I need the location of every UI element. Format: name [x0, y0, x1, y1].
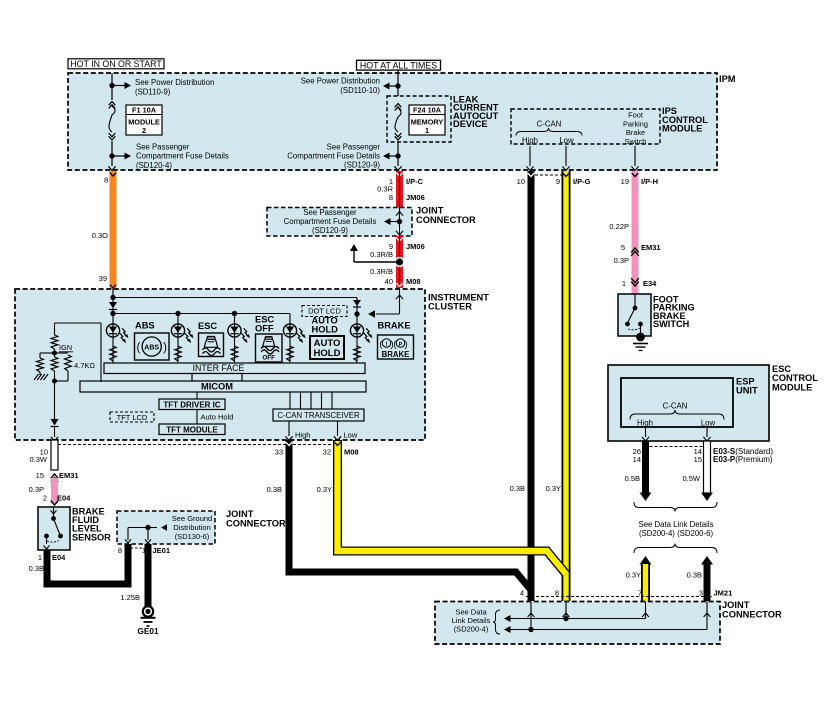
- svg-text:See Ground: See Ground: [172, 514, 212, 523]
- svg-text:MICOM: MICOM: [201, 382, 233, 392]
- svg-text:0.3Y: 0.3Y: [626, 571, 641, 580]
- svg-text:High: High: [522, 136, 538, 145]
- svg-text:4: 4: [520, 589, 524, 598]
- svg-text:MODULE: MODULE: [772, 382, 812, 392]
- svg-text:0.3W: 0.3W: [29, 455, 47, 464]
- svg-text:1.25B: 1.25B: [120, 593, 140, 602]
- svg-text:M08: M08: [344, 448, 359, 457]
- svg-text:Switch: Switch: [625, 137, 647, 146]
- svg-text:): ): [163, 342, 167, 354]
- svg-text:OFF: OFF: [262, 355, 275, 362]
- svg-text:0.5W: 0.5W: [682, 474, 700, 483]
- svg-text:0.3O: 0.3O: [92, 231, 108, 240]
- svg-text:High: High: [637, 419, 653, 428]
- svg-text:0.3P: 0.3P: [614, 256, 629, 265]
- svg-text:1: 1: [38, 553, 42, 562]
- svg-text:Low: Low: [701, 419, 716, 428]
- svg-text:0.3R/B: 0.3R/B: [370, 267, 393, 276]
- svg-text:CONNECTOR: CONNECTOR: [226, 518, 286, 528]
- svg-text:EM31: EM31: [59, 471, 79, 480]
- svg-text:HOT AT ALL TIMES: HOT AT ALL TIMES: [360, 60, 437, 70]
- svg-text:P: P: [399, 342, 403, 348]
- svg-text:JM06: JM06: [406, 193, 425, 202]
- svg-text:ESC: ESC: [198, 321, 217, 331]
- svg-text:Parking: Parking: [623, 119, 648, 128]
- svg-text:UNIT: UNIT: [736, 386, 758, 396]
- svg-text:E03-P(Premium): E03-P(Premium): [713, 455, 773, 464]
- svg-text:MODULE: MODULE: [662, 124, 702, 134]
- svg-text:0.3R/B: 0.3R/B: [370, 250, 393, 259]
- svg-text:TFT DRIVER IC: TFT DRIVER IC: [163, 401, 221, 410]
- svg-text:F24 10A: F24 10A: [413, 106, 442, 115]
- svg-text:1: 1: [425, 126, 429, 135]
- svg-text:See Passenger: See Passenger: [327, 142, 381, 151]
- svg-text:I/P-G: I/P-G: [573, 177, 591, 186]
- svg-text:(SD120-9): (SD120-9): [312, 226, 348, 235]
- svg-text:E04: E04: [52, 553, 66, 562]
- svg-text:39: 39: [99, 274, 107, 283]
- svg-text:F1 10A: F1 10A: [132, 106, 157, 115]
- svg-text:3: 3: [699, 589, 703, 598]
- svg-text:Low: Low: [344, 431, 358, 440]
- svg-text:E34: E34: [643, 279, 657, 288]
- svg-text:JE01: JE01: [153, 546, 171, 555]
- svg-text:(SD120-9): (SD120-9): [344, 161, 380, 170]
- svg-text:(: (: [136, 342, 140, 354]
- svg-text:I/P-C: I/P-C: [406, 177, 424, 186]
- svg-text:2: 2: [142, 126, 146, 135]
- svg-text:40: 40: [385, 277, 393, 286]
- svg-text:(SD110-9): (SD110-9): [135, 88, 171, 97]
- svg-text:EM31: EM31: [641, 243, 661, 252]
- svg-text:!: !: [386, 342, 388, 348]
- svg-text:1: 1: [622, 279, 626, 288]
- svg-text:0.22P: 0.22P: [609, 222, 629, 231]
- svg-text:See Power Distribution: See Power Distribution: [301, 77, 380, 86]
- svg-text:0.3B: 0.3B: [267, 485, 282, 494]
- svg-text:JM21: JM21: [714, 589, 733, 598]
- svg-text:14: 14: [633, 455, 641, 464]
- svg-text:IPM: IPM: [719, 74, 736, 84]
- svg-text:TFT MODULE: TFT MODULE: [166, 426, 218, 435]
- svg-text:BRAKE: BRAKE: [378, 321, 411, 331]
- svg-text:0.3Y: 0.3Y: [546, 484, 561, 493]
- svg-text:0.3B: 0.3B: [510, 484, 525, 493]
- svg-text:(SD200-4) (SD200-6): (SD200-4) (SD200-6): [639, 529, 714, 538]
- svg-text:DOT LCD: DOT LCD: [308, 307, 341, 316]
- svg-text:Low: Low: [559, 136, 574, 145]
- svg-text:(SD110-10): (SD110-10): [340, 86, 380, 95]
- svg-text:OFF: OFF: [255, 323, 274, 333]
- svg-text:See Passenger: See Passenger: [303, 208, 357, 217]
- svg-text:JM06: JM06: [406, 242, 425, 251]
- svg-text:(SD130-6): (SD130-6): [175, 532, 210, 541]
- svg-text:4.7KΩ: 4.7KΩ: [74, 361, 95, 370]
- svg-text:SENSOR: SENSOR: [72, 532, 111, 542]
- svg-text:19: 19: [621, 177, 629, 186]
- svg-text:GE01: GE01: [137, 626, 159, 636]
- svg-text:33: 33: [275, 448, 283, 457]
- svg-text:TFT LCD: TFT LCD: [117, 413, 148, 422]
- svg-text:0.5B: 0.5B: [625, 474, 640, 483]
- svg-text:8: 8: [555, 589, 559, 598]
- svg-text:ABS: ABS: [135, 320, 155, 330]
- svg-text:High: High: [295, 431, 310, 440]
- svg-text:See Passenger: See Passenger: [136, 143, 190, 152]
- svg-text:(SD200-4): (SD200-4): [454, 625, 489, 634]
- svg-text:Distribution: Distribution: [173, 523, 211, 532]
- svg-text:See Power Distribution: See Power Distribution: [135, 78, 214, 87]
- svg-text:See Data Link Details: See Data Link Details: [639, 520, 714, 529]
- svg-text:8: 8: [389, 193, 393, 202]
- svg-text:C-CAN: C-CAN: [537, 120, 562, 129]
- svg-text:5: 5: [621, 243, 625, 252]
- svg-text:0.3B: 0.3B: [687, 571, 702, 580]
- svg-text:Compartment Fuse Details: Compartment Fuse Details: [287, 152, 380, 161]
- svg-text:DEVICE: DEVICE: [453, 119, 488, 129]
- svg-text:Compartment Fuse Details: Compartment Fuse Details: [284, 217, 377, 226]
- svg-text:2: 2: [43, 494, 47, 503]
- svg-text:CONNECTOR: CONNECTOR: [722, 609, 782, 619]
- svg-text:Compartment Fuse Details: Compartment Fuse Details: [136, 152, 229, 161]
- svg-text:IGN: IGN: [59, 343, 72, 352]
- svg-text:8: 8: [118, 546, 122, 555]
- svg-text:M08: M08: [406, 277, 421, 286]
- svg-text:(SD120-4): (SD120-4): [136, 161, 172, 170]
- svg-text:ABS: ABS: [144, 345, 159, 352]
- svg-text:15: 15: [694, 455, 702, 464]
- svg-text:SWITCH: SWITCH: [653, 319, 690, 329]
- svg-text:9: 9: [556, 177, 560, 186]
- svg-text:I/P-H: I/P-H: [641, 177, 658, 186]
- svg-text:CONNECTOR: CONNECTOR: [416, 215, 476, 225]
- svg-text:32: 32: [323, 448, 331, 457]
- svg-text:HOLD: HOLD: [312, 325, 339, 335]
- svg-text:): ): [405, 339, 408, 350]
- svg-text:E04: E04: [57, 494, 71, 503]
- svg-text:15: 15: [36, 471, 44, 480]
- svg-text:0.3P: 0.3P: [29, 485, 44, 494]
- svg-text:C-CAN TRANSCEIVER: C-CAN TRANSCEIVER: [277, 411, 360, 420]
- svg-text:10: 10: [517, 177, 525, 186]
- svg-text:8: 8: [104, 176, 108, 185]
- svg-text:Brake: Brake: [626, 128, 645, 137]
- svg-text:INTER FACE: INTER FACE: [193, 363, 245, 373]
- svg-text:7: 7: [638, 589, 642, 598]
- svg-text:0.3B: 0.3B: [29, 564, 44, 573]
- svg-text:HOLD: HOLD: [314, 348, 341, 359]
- svg-text:HOT IN ON OR START: HOT IN ON OR START: [70, 59, 162, 69]
- svg-text:CLUSTER: CLUSTER: [428, 302, 472, 312]
- svg-text:0.3Y: 0.3Y: [317, 485, 332, 494]
- svg-text:BRAKE: BRAKE: [382, 350, 410, 359]
- svg-text:Auto Hold: Auto Hold: [201, 413, 234, 422]
- svg-text:Foot: Foot: [628, 111, 643, 120]
- svg-text:C-CAN: C-CAN: [663, 402, 688, 411]
